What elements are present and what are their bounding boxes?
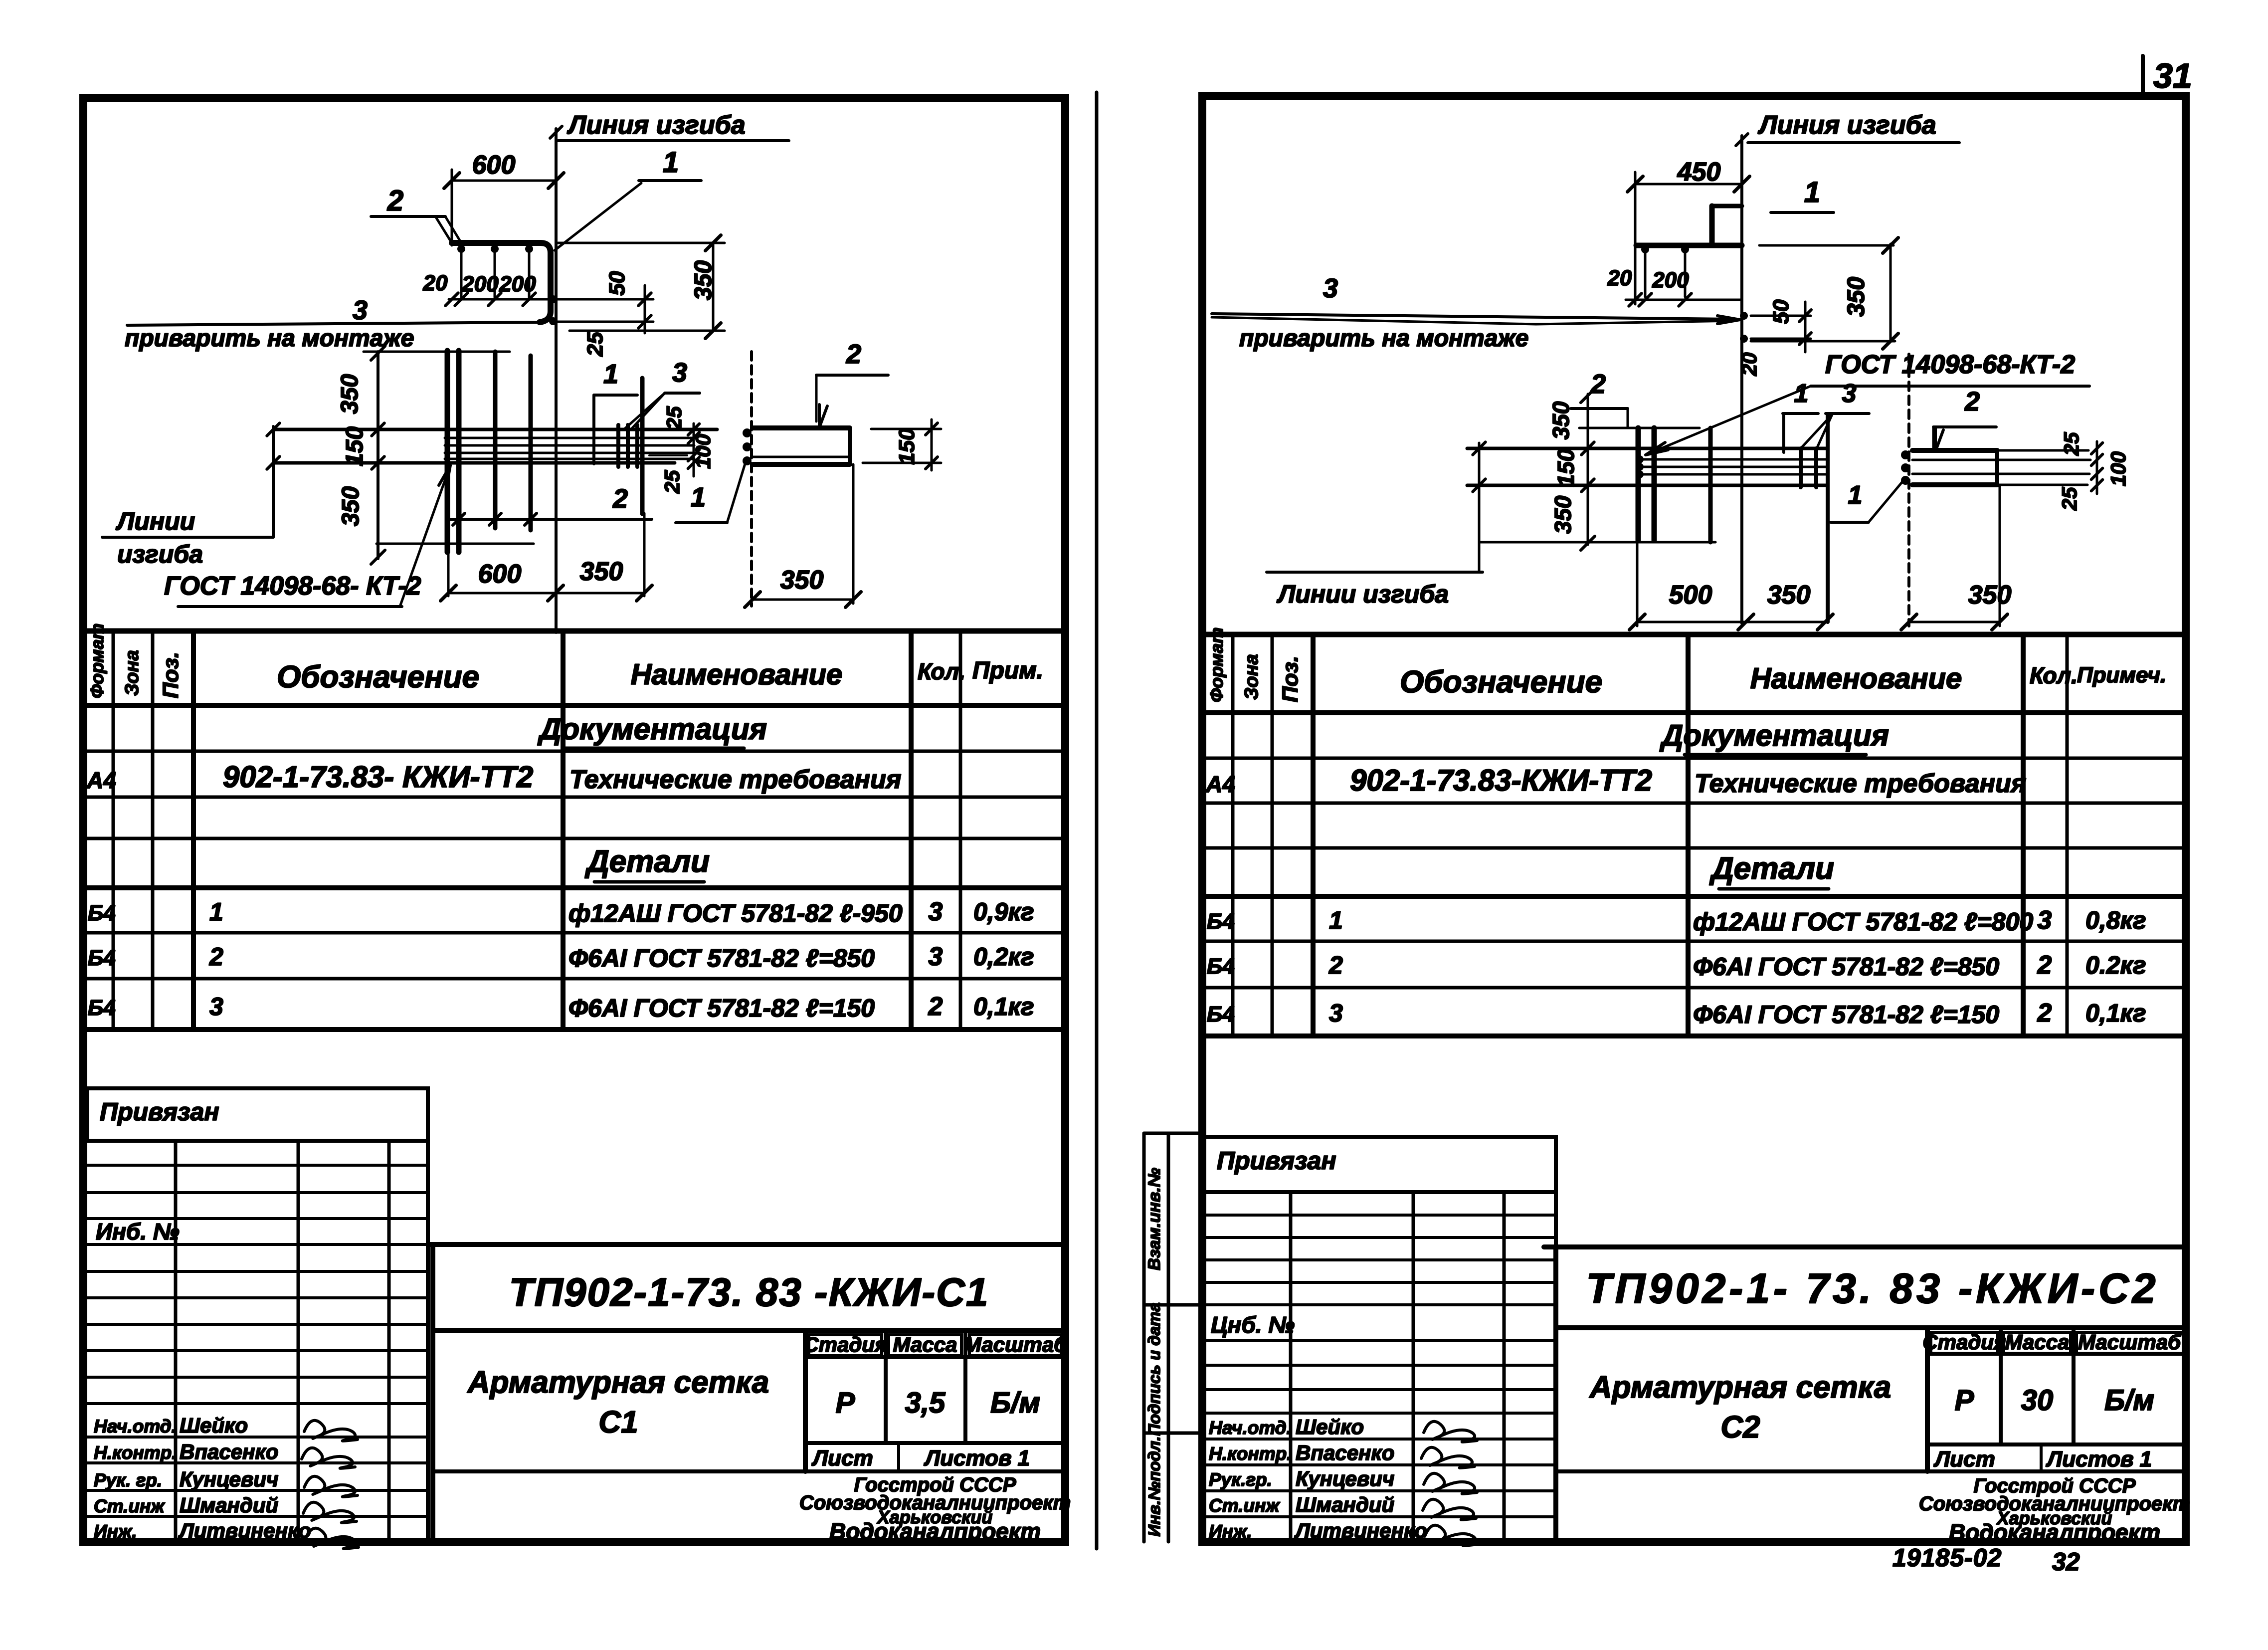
svg-text:32: 32 — [2052, 1548, 2080, 1576]
svg-text:Б4: Б4 — [1207, 1002, 1235, 1027]
svg-text:2: 2 — [387, 185, 403, 217]
svg-text:2: 2 — [2037, 951, 2052, 980]
svg-text:600: 600 — [472, 151, 516, 180]
svg-text:Линии: Линии — [116, 507, 195, 535]
svg-text:А4: А4 — [1205, 771, 1235, 797]
svg-text:902-1-73.83- КЖИ-ТТ2: 902-1-73.83- КЖИ-ТТ2 — [223, 760, 534, 794]
svg-text:ТП902-1- 73. 83 -КЖИ-С2: ТП902-1- 73. 83 -КЖИ-С2 — [1586, 1265, 2159, 1312]
svg-text:25: 25 — [2060, 432, 2083, 456]
svg-text:1: 1 — [1804, 176, 1820, 208]
svg-text:Водоканалпроект: Водоканалпроект — [1949, 1519, 2160, 1545]
svg-text:Б4: Б4 — [88, 946, 116, 970]
svg-text:Взам.инв.№: Взам.инв.№ — [1145, 1168, 1164, 1270]
svg-text:Ст.инж: Ст.инж — [94, 1496, 165, 1516]
svg-text:ТП902-1-73. 83 -КЖИ-С1: ТП902-1-73. 83 -КЖИ-С1 — [509, 1270, 989, 1314]
svg-text:Детали: Детали — [584, 844, 710, 879]
svg-text:25: 25 — [660, 470, 684, 494]
svg-text:3: 3 — [929, 897, 943, 926]
svg-text:150: 150 — [1553, 448, 1579, 487]
svg-text:приварить на монтаже: приварить на монтаже — [125, 325, 414, 352]
svg-text:Зона: Зона — [122, 650, 143, 696]
svg-text:Обозначение: Обозначение — [277, 660, 479, 694]
svg-text:Инж.: Инж. — [1209, 1521, 1252, 1542]
svg-text:Кол.: Кол. — [2030, 662, 2078, 688]
svg-text:Кол.: Кол. — [918, 658, 965, 684]
svg-text:150: 150 — [342, 426, 368, 466]
svg-text:20: 20 — [1737, 353, 1761, 377]
svg-text:3: 3 — [2038, 906, 2052, 935]
svg-text:3,5: 3,5 — [905, 1387, 945, 1419]
svg-text:Подпись и дата: Подпись и дата — [1145, 1302, 1163, 1436]
svg-text:Наименование: Наименование — [631, 658, 842, 691]
svg-text:50: 50 — [605, 271, 629, 295]
svg-text:Линия изгиба: Линия изгиба — [567, 111, 746, 140]
svg-text:20: 20 — [1607, 266, 1632, 290]
svg-text:Лист: Лист — [811, 1446, 873, 1470]
svg-text:1: 1 — [209, 898, 223, 926]
svg-text:350: 350 — [1968, 581, 2012, 610]
svg-text:Линии изгиба: Линии изгиба — [1277, 580, 1449, 608]
svg-text:31: 31 — [2153, 56, 2192, 95]
svg-text:Масштаб: Масштаб — [964, 1333, 1067, 1356]
svg-text:изгиба: изгиба — [117, 540, 203, 568]
svg-text:0,2кг: 0,2кг — [973, 943, 1034, 971]
svg-text:Б/м: Б/м — [2104, 1384, 2154, 1417]
svg-text:Р: Р — [1955, 1384, 1974, 1417]
svg-text:0,1кг: 0,1кг — [973, 993, 1034, 1021]
svg-text:Детали: Детали — [1709, 851, 1834, 886]
svg-text:200: 200 — [461, 272, 499, 296]
svg-text:200: 200 — [1652, 268, 1689, 292]
svg-text:Формат: Формат — [1206, 627, 1227, 702]
svg-text:Привязан: Привязан — [100, 1098, 219, 1126]
svg-text:200: 200 — [499, 272, 536, 296]
svg-text:ф12АШ ГОСТ 5781-82 ℓ-950: ф12АШ ГОСТ 5781-82 ℓ-950 — [568, 899, 903, 927]
svg-text:3: 3 — [209, 993, 223, 1021]
svg-text:Лист: Лист — [1933, 1447, 1995, 1471]
svg-text:Документация: Документация — [1659, 719, 1889, 752]
svg-text:Шмандий: Шмандий — [180, 1493, 278, 1517]
svg-text:350: 350 — [1767, 581, 1811, 610]
svg-text:Ст.инж: Ст.инж — [1209, 1495, 1280, 1516]
svg-text:350: 350 — [780, 566, 824, 595]
svg-text:2: 2 — [1328, 951, 1343, 979]
svg-text:2: 2 — [612, 484, 628, 514]
svg-text:Литвиненко: Литвиненко — [1294, 1519, 1427, 1542]
svg-text:Р: Р — [836, 1387, 855, 1419]
svg-text:1: 1 — [1848, 481, 1863, 510]
svg-text:Поз.: Поз. — [159, 652, 183, 698]
svg-text:1: 1 — [663, 146, 679, 179]
svg-text:2: 2 — [1590, 369, 1606, 399]
svg-text:Привязан: Привязан — [1217, 1147, 1336, 1175]
svg-text:Нач.отд.: Нач.отд. — [1209, 1418, 1292, 1438]
svg-text:Инб. №: Инб. № — [96, 1219, 180, 1244]
svg-text:Технические требования: Технические требования — [569, 765, 901, 794]
svg-text:ГОСТ 14098-68- КТ-2: ГОСТ 14098-68- КТ-2 — [164, 572, 421, 601]
svg-text:19185-02: 19185-02 — [1892, 1544, 2002, 1572]
svg-text:Б4: Б4 — [1207, 909, 1235, 934]
svg-text:902-1-73.83-КЖИ-ТТ2: 902-1-73.83-КЖИ-ТТ2 — [1350, 764, 1652, 797]
svg-text:3: 3 — [929, 942, 943, 971]
svg-text:А4: А4 — [86, 767, 116, 793]
svg-text:350: 350 — [1550, 495, 1576, 534]
svg-text:Арматурная сетка: Арматурная сетка — [467, 1365, 769, 1400]
svg-text:Прим.: Прим. — [972, 657, 1043, 684]
svg-text:Н.контр.: Н.контр. — [1209, 1444, 1292, 1464]
svg-text:25: 25 — [2058, 487, 2081, 511]
svg-text:600: 600 — [478, 560, 522, 589]
svg-text:350: 350 — [338, 486, 364, 526]
svg-text:3: 3 — [1842, 379, 1857, 408]
svg-text:100: 100 — [691, 434, 715, 469]
svg-text:Наименование: Наименование — [1750, 662, 1962, 695]
svg-text:Листов 1: Листов 1 — [2046, 1447, 2152, 1471]
svg-text:Технические требования: Технические требования — [1695, 769, 2026, 798]
svg-text:Масштаб: Масштаб — [2078, 1330, 2181, 1354]
svg-text:2: 2 — [846, 339, 861, 369]
svg-text:0,9кг: 0,9кг — [973, 898, 1034, 926]
svg-text:25: 25 — [583, 332, 607, 357]
svg-text:Кунцевич: Кунцевич — [180, 1467, 278, 1491]
svg-text:приварить на монтаже: приварить на монтаже — [1239, 325, 1528, 352]
svg-text:Б4: Б4 — [1207, 954, 1235, 979]
svg-text:30: 30 — [2021, 1384, 2054, 1417]
svg-text:Рук.гр.: Рук.гр. — [1209, 1469, 1272, 1490]
svg-text:Рук. гр.: Рук. гр. — [94, 1470, 162, 1490]
svg-text:Линия изгиба: Линия изгиба — [1757, 111, 1936, 140]
svg-text:Примеч.: Примеч. — [2077, 663, 2166, 687]
svg-text:ф12АШ ГОСТ 5781-82 ℓ=800: ф12АШ ГОСТ 5781-82 ℓ=800 — [1693, 908, 2033, 936]
svg-text:100: 100 — [2106, 451, 2130, 486]
svg-text:Масса: Масса — [893, 1333, 957, 1356]
svg-text:Масса: Масса — [2005, 1330, 2070, 1354]
svg-text:Стадия: Стадия — [803, 1333, 887, 1356]
svg-text:Инв.№подл.: Инв.№подл. — [1145, 1437, 1163, 1537]
svg-text:Литвиненко: Литвиненко — [178, 1519, 311, 1542]
svg-text:Кунцевич: Кунцевич — [1296, 1467, 1394, 1490]
svg-text:500: 500 — [1669, 581, 1712, 610]
svg-text:ГОСТ 14098-68-КТ-2: ГОСТ 14098-68-КТ-2 — [1825, 350, 2075, 379]
svg-text:50: 50 — [1769, 299, 1793, 324]
svg-text:Б4: Б4 — [88, 901, 116, 925]
svg-text:150: 150 — [895, 428, 919, 465]
svg-text:1: 1 — [691, 482, 706, 512]
svg-text:Цнб. №: Цнб. № — [1211, 1312, 1295, 1338]
svg-text:1: 1 — [1329, 906, 1343, 934]
svg-text:Арматурная сетка: Арматурная сетка — [1589, 1370, 1891, 1405]
svg-text:С2: С2 — [1720, 1410, 1760, 1444]
svg-text:1: 1 — [603, 359, 618, 389]
svg-text:0.2кг: 0.2кг — [2085, 951, 2146, 979]
svg-text:0,1кг: 0,1кг — [2085, 999, 2146, 1027]
svg-text:Впасенко: Впасенко — [180, 1440, 278, 1463]
svg-text:Б4: Б4 — [88, 996, 116, 1020]
svg-text:Н.контр.: Н.контр. — [94, 1443, 177, 1463]
svg-text:Формат: Формат — [87, 623, 107, 698]
svg-text:Обозначение: Обозначение — [1400, 665, 1602, 699]
svg-text:350: 350 — [580, 557, 623, 586]
svg-text:350: 350 — [1843, 277, 1870, 317]
svg-text:2: 2 — [1964, 387, 1980, 416]
svg-text:Ф6АI ГОСТ 5781-82 ℓ=850: Ф6АI ГОСТ 5781-82 ℓ=850 — [1693, 953, 1999, 981]
svg-text:350: 350 — [337, 374, 363, 414]
svg-text:3: 3 — [1329, 999, 1343, 1027]
svg-text:450: 450 — [1677, 158, 1721, 187]
svg-text:350: 350 — [1548, 401, 1574, 439]
svg-text:Ф6АI ГОСТ 5781-82 ℓ=850: Ф6АI ГОСТ 5781-82 ℓ=850 — [568, 944, 875, 972]
svg-text:Б/м: Б/м — [990, 1387, 1040, 1419]
svg-text:Впасенко: Впасенко — [1296, 1441, 1394, 1464]
svg-text:2: 2 — [928, 992, 943, 1021]
svg-text:Водоканалпроект: Водоканалпроект — [829, 1518, 1041, 1544]
svg-text:3: 3 — [672, 358, 687, 388]
svg-text:Зона: Зона — [1241, 654, 1262, 700]
svg-text:3: 3 — [353, 295, 368, 325]
svg-text:Поз.: Поз. — [1278, 656, 1303, 702]
svg-text:3: 3 — [1323, 273, 1338, 303]
svg-text:1: 1 — [1794, 379, 1809, 408]
svg-text:0,8кг: 0,8кг — [2085, 906, 2146, 934]
svg-text:Инж.: Инж. — [94, 1521, 137, 1542]
svg-text:Стадия: Стадия — [1922, 1330, 2006, 1354]
svg-text:25: 25 — [662, 406, 686, 430]
svg-text:Ф6АI ГОСТ 5781-82 ℓ=150: Ф6АI ГОСТ 5781-82 ℓ=150 — [1693, 1001, 1999, 1029]
svg-text:Шейко: Шейко — [1296, 1415, 1364, 1439]
svg-text:Шмандий: Шмандий — [1296, 1493, 1394, 1516]
svg-text:С1: С1 — [598, 1405, 638, 1440]
svg-text:2: 2 — [209, 943, 223, 971]
svg-text:Нач.отд.: Нач.отд. — [94, 1416, 177, 1437]
svg-text:Документация: Документация — [537, 712, 767, 746]
svg-text:Шейко: Шейко — [180, 1414, 248, 1437]
svg-text:Ф6АI ГОСТ 5781-82 ℓ=150: Ф6АI ГОСТ 5781-82 ℓ=150 — [568, 994, 875, 1022]
svg-text:Листов 1: Листов 1 — [924, 1446, 1030, 1470]
svg-text:20: 20 — [423, 271, 448, 295]
svg-text:2: 2 — [2037, 999, 2052, 1028]
